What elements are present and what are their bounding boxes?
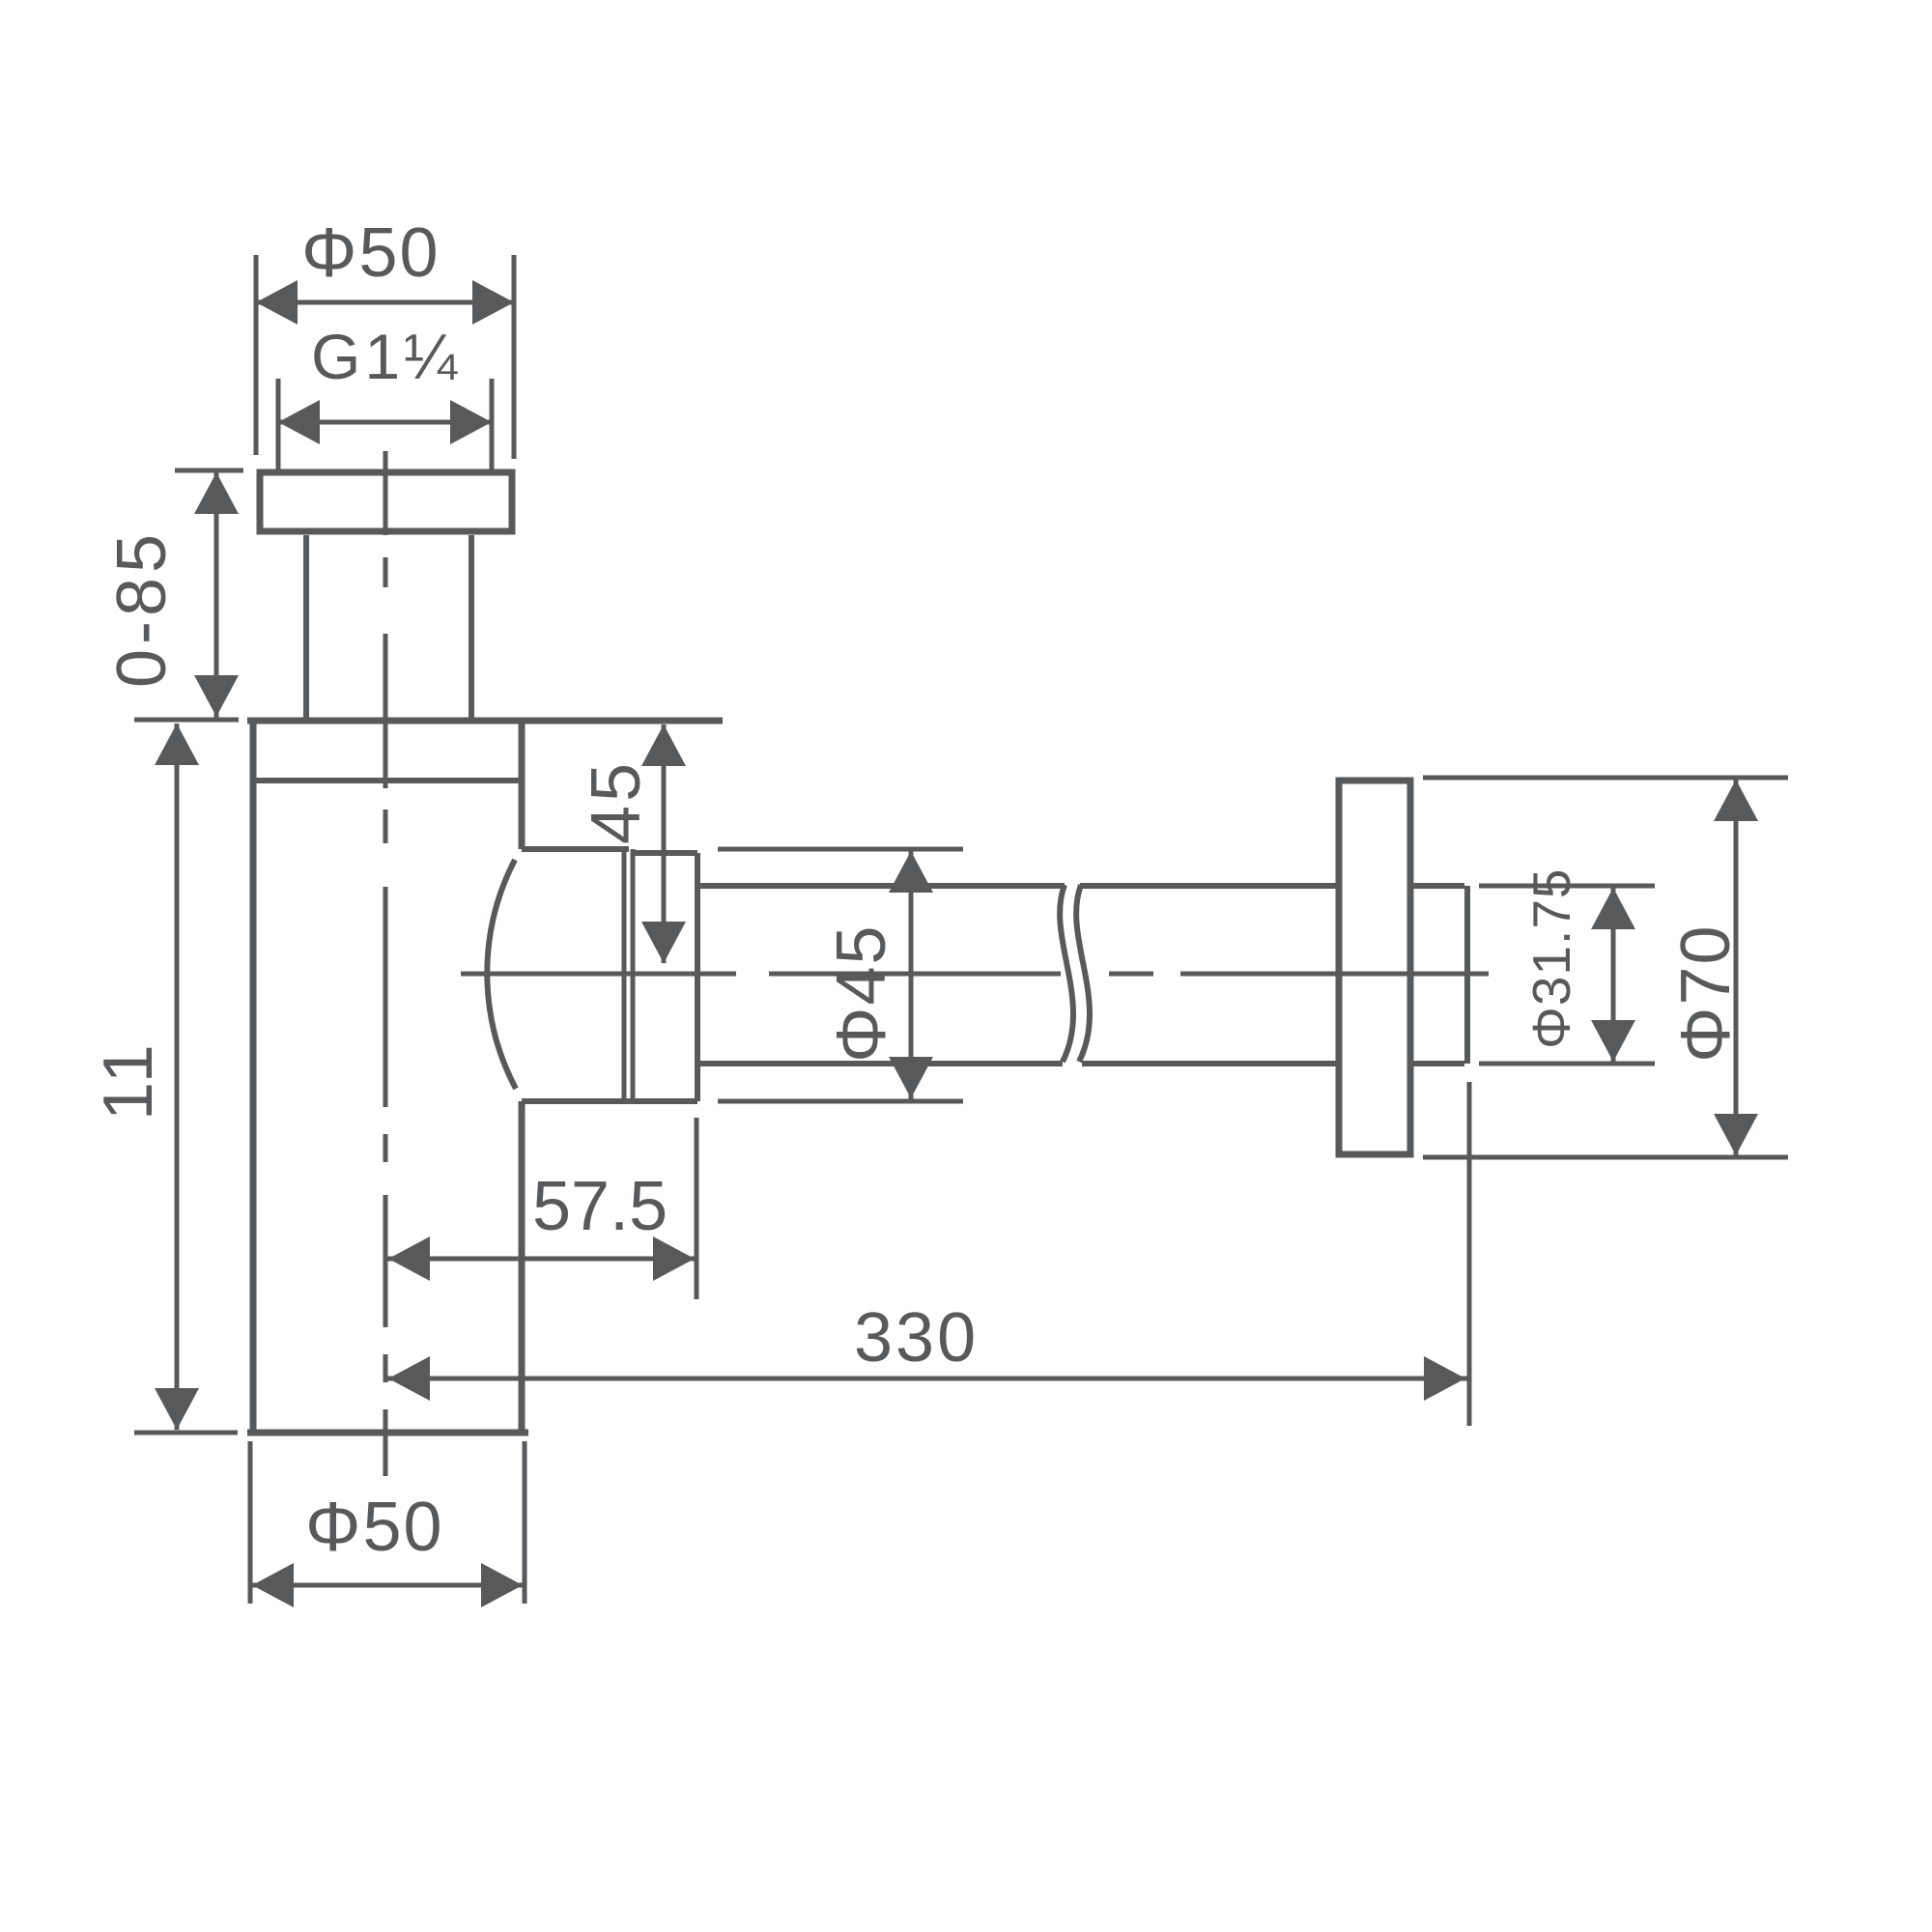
arrows phi31.75 [1591, 888, 1635, 929]
dim 45: dimension line [662, 724, 667, 963]
dim phi70: dimension line [1734, 778, 1739, 1157]
joint ring line 1 [622, 849, 627, 1101]
horizontal pipe bottom wall segment 3 [1413, 1061, 1464, 1066]
svg-text:Φ45: Φ45 [823, 923, 900, 1063]
svg-text:57.5: 57.5 [532, 1168, 668, 1245]
top slip nut [260, 472, 512, 531]
arrows 11 [155, 724, 199, 765]
arrows 45 [641, 724, 686, 766]
dim phi70: extension lines [1423, 776, 1788, 781]
pipe end cap [1464, 886, 1470, 1064]
svg-text:11: 11 [90, 1040, 167, 1121]
dim phi50 top: extension lines [254, 255, 259, 455]
outlet nut right wall [695, 853, 700, 1101]
wall flange [1339, 781, 1410, 1154]
body bottom line [247, 1430, 528, 1436]
dim phi31.75: dimension line [1611, 886, 1616, 1064]
outlet nut top [633, 850, 697, 856]
dim phi50 bottom: extension lines [248, 1441, 253, 1604]
outlet top line [522, 846, 629, 852]
dim phi45: dimension line [909, 849, 914, 1101]
body right wall upper [519, 721, 526, 849]
dim 11: dimension line [175, 724, 180, 1430]
dim 330: dimension line [386, 1377, 1467, 1381]
svg-text:Φ31.75: Φ31.75 [1521, 867, 1581, 1049]
tailpiece pipe right wall [469, 535, 474, 721]
dim phi50 top: dimension line [256, 300, 514, 305]
horizontal pipe top wall segment 1 [697, 883, 1065, 889]
pipe break curve right [1076, 885, 1090, 1062]
pipe break curve left [1060, 885, 1073, 1062]
arrows phi70 [1714, 780, 1758, 821]
tailpiece pipe left wall [303, 535, 309, 721]
dim 0-85: dimension line [214, 470, 219, 718]
body flange bottom line [250, 778, 525, 783]
body left wall [250, 721, 257, 1433]
dim phi31.75: extension lines [1479, 884, 1655, 889]
horizontal pipe top wall segment 2 [1080, 883, 1336, 889]
svg-text:Φ50: Φ50 [301, 214, 440, 292]
horizontal centerline [461, 972, 1489, 977]
svg-text:0-85: 0-85 [103, 529, 181, 688]
arrows G1 1/4 [278, 400, 320, 444]
svg-text:330: 330 [854, 1299, 979, 1377]
joint ring line 2 [631, 849, 636, 1101]
dim phi50 bottom: dimension line [250, 1583, 525, 1588]
body top line (extends right as 45-dim extension) [247, 718, 723, 724]
horizontal pipe bottom wall segment 1 [697, 1061, 1063, 1066]
trap internal arc [487, 860, 516, 1089]
svg-text:Φ50: Φ50 [305, 1489, 444, 1566]
dim 57.5: dimension line [386, 1257, 696, 1262]
dim 0-85: ticks [175, 469, 243, 473]
dim 57.5: extension line [695, 1118, 699, 1299]
vertical centerline [384, 451, 388, 1476]
arrows phi50 top [256, 280, 298, 325]
horizontal pipe top wall segment 3 [1413, 883, 1464, 889]
arrows 57.5 [388, 1236, 430, 1281]
arrows 0-85 [194, 472, 239, 514]
dim phi45: extension lines [718, 847, 963, 852]
arrows phi45 [889, 851, 933, 893]
svg-text:45: 45 [578, 759, 655, 844]
dim G1 1/4: extension lines [276, 379, 281, 474]
svg-text:G1¼: G1¼ [311, 321, 461, 392]
dim G1 1/4: dimension line [278, 420, 492, 425]
dim 11: bottom tick [134, 1431, 238, 1435]
dim 330: extension line [1467, 1082, 1472, 1426]
body right wall lower [519, 1101, 526, 1433]
horizontal pipe bottom wall segment 2 [1082, 1061, 1336, 1066]
arrows 330 [388, 1356, 430, 1401]
svg-text:Φ70: Φ70 [1667, 923, 1745, 1063]
arrows phi50 bottom [252, 1563, 294, 1607]
outlet bottom line [522, 1098, 697, 1104]
